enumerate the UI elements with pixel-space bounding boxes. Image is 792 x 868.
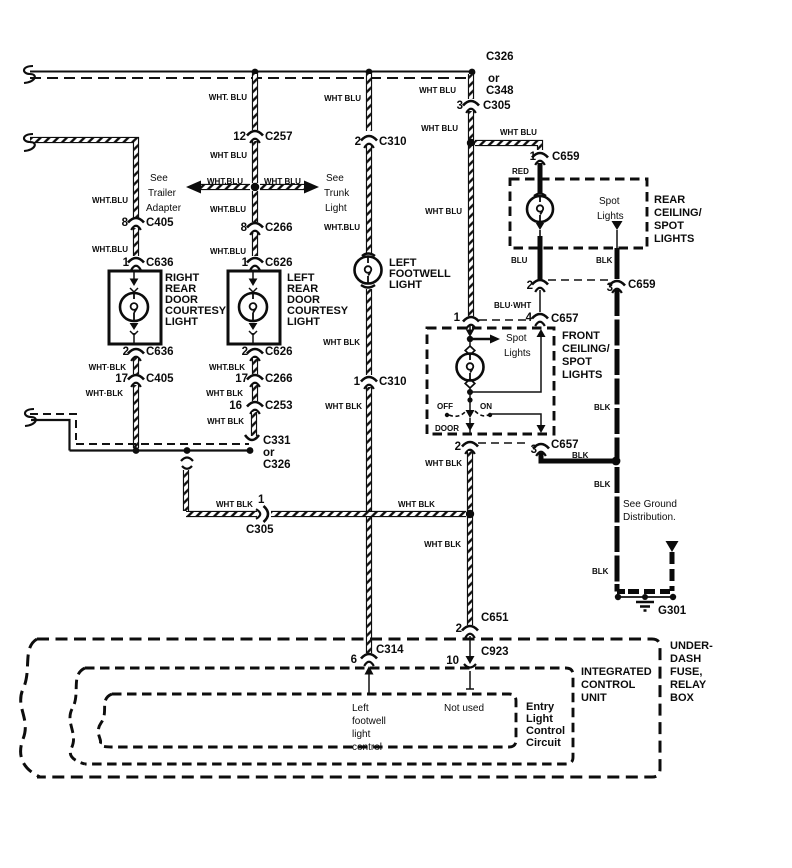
connector C636 (top) [128,258,144,270]
svg-text:LIGHTS: LIGHTS [562,369,602,381]
svg-text:2: 2 [456,623,462,635]
rear ceiling/spot lights box (dashed) [510,179,647,248]
svg-text:C257: C257 [265,131,293,143]
svg-text:Adapter: Adapter [146,203,182,214]
svg-text:DOOR: DOOR [435,424,459,433]
svg-text:WHT.BLU: WHT.BLU [92,245,128,254]
wire WHT-BLU C310 to footwell lamp [366,146,372,254]
connector C657 pin4 [532,314,548,326]
wire WHT-BLU bus down to C305 top [468,74,474,99]
node dot WHT-BLK junction with C305 bus [466,510,474,518]
svg-text:REAR: REAR [654,194,685,206]
wire dashed rail bottom-left bus [30,414,249,444]
svg-text:BLK: BLK [592,567,609,576]
svg-text:SPOT: SPOT [562,356,592,368]
svg-text:2: 2 [527,280,533,292]
svg-text:17: 17 [235,373,248,385]
ground bus end dot left [615,594,621,600]
switch throw dashed arms [449,411,488,416]
svg-text:C626: C626 [265,257,293,269]
connector bridge dashed C659 [548,279,608,281]
svg-text:or: or [263,447,275,459]
svg-text:WHT BLU: WHT BLU [419,86,456,95]
svg-text:C266: C266 [265,222,293,234]
svg-text:Light: Light [325,203,347,214]
svg-text:RELAY: RELAY [670,679,707,691]
svg-text:Spot: Spot [506,333,527,344]
svg-text:C405: C405 [146,373,174,385]
wire WHT-BLK C657 pin2 down to C651 [467,451,473,625]
connector C314 [361,654,377,666]
node dot bottom bus to C305 drop [184,447,191,454]
svg-text:C348: C348 [486,85,514,97]
arrowhead down at pin3 exit [537,425,546,433]
svg-text:BLK: BLK [596,256,613,265]
svg-text:UNIT: UNIT [581,692,607,704]
wire WHT-BLK C405 down to junction [133,385,139,448]
svg-text:WHT BLU: WHT BLU [500,128,537,137]
svg-text:WHT BLK: WHT BLK [216,500,253,509]
wire BLK C657 pin3 to ground bus [541,453,614,461]
connector C659 pin2 [532,280,548,292]
ground distribution arrow [666,541,679,552]
connector C405 (upper) [128,218,144,230]
svg-text:C659: C659 [628,279,656,291]
svg-text:WHT BLU: WHT BLU [210,151,247,160]
wire WHT-BLK C310 down to C314 [366,387,372,653]
connector C626 (top) [247,258,263,270]
svg-text:1: 1 [258,494,265,506]
node dot switch top [467,397,472,402]
ground symbol G301 [636,594,654,611]
switch DOOR arrowhead down [466,418,475,434]
front ceiling/spot lights box (dashed) [427,328,554,434]
svg-text:WHT.BLU: WHT.BLU [207,177,243,186]
svg-text:C657: C657 [551,439,579,451]
svg-text:2: 2 [455,441,461,453]
svg-text:C305: C305 [246,524,274,536]
svg-text:BLK: BLK [594,403,611,412]
wire WHT-BLU junction down to C657 pin1 [468,146,474,316]
wire WHT-BLU horizontal feed to right rear door [30,140,136,218]
top bus wire dashed rail [30,77,468,79]
svg-text:3: 3 [457,100,463,112]
ground bus line G301 [617,596,674,598]
svg-text:C636: C636 [146,257,174,269]
svg-text:1: 1 [242,257,249,269]
node dot C305 wire to rear ceiling feed [467,139,475,147]
under-dash fuse/relay box (dashed outer) [37,639,660,777]
svg-text:See: See [326,173,344,184]
node dot BLK junction [612,457,621,466]
svg-text:DASH: DASH [670,653,701,665]
svg-text:WHT BLK: WHT BLK [323,338,360,347]
break symbol S left end of bottom bus [25,409,36,426]
connector C657 pin2 [462,442,478,454]
svg-text:WHT BLK: WHT BLK [398,500,435,509]
svg-text:6: 6 [351,654,357,666]
svg-text:C923: C923 [481,646,509,658]
entry box wavy left edge [98,694,112,747]
right rear door lamp entry arrow [133,271,135,280]
wire WHT-BLK C626 to C266 [252,358,258,374]
svg-text:Circuit: Circuit [526,737,561,749]
left rear door lamp exit arrow [249,323,258,330]
svg-text:LIGHT: LIGHT [389,279,422,291]
ICU box wavy left edge [70,668,85,764]
node dot front box spot feed [467,336,473,342]
arrowhead up to pin4 [537,329,546,337]
wire ground corner dashed thick [617,584,625,592]
top bus wire solid rail [30,70,473,72]
svg-text:Lights: Lights [504,348,531,359]
svg-text:LIGHT: LIGHT [165,316,198,328]
wire BLU lamp down to C659 pin2 [538,236,543,279]
node dot bus to C257 wire [252,69,259,76]
svg-text:WHT.BLU: WHT.BLU [210,205,246,214]
wire arrow to trunk light (right) [260,184,305,190]
ground bus end dot right [670,594,676,600]
connector C651 [462,626,478,638]
svg-text:WHT.BLK: WHT.BLK [209,363,245,372]
connector C626 (bottom) [247,349,263,361]
wire WHT-BLU C257 to trailer node [252,141,258,183]
svg-text:WHT BLK: WHT BLK [206,389,243,398]
switch common arrowhead [466,410,475,418]
wire BLK C659 pin3 down to ground corner [615,290,620,588]
wire WHT-BLK footwell lamp down to C310 lower [366,289,372,375]
switch ON contact dot [488,413,492,417]
wire pin1 into front box with arrow [466,326,474,337]
svg-text:RED: RED [512,167,529,176]
connector C266 (lower) [247,375,263,387]
connector C657 pin3 [533,444,549,456]
svg-text:WHT BLU: WHT BLU [264,177,301,186]
svg-text:CEILING/: CEILING/ [654,207,702,219]
break symbol S left end of top bus [24,66,35,83]
svg-text:ON: ON [480,402,492,411]
svg-text:FRONT: FRONT [562,330,600,342]
spot lights feed arrow (rear box) [612,221,623,230]
lamp left footwell light [355,254,382,288]
svg-text:Lights: Lights [597,211,624,222]
connector C657 pin1 [463,317,479,329]
svg-text:Distribution.: Distribution. [623,512,676,523]
connector C305 (horizontal) [256,506,268,522]
wire arrow to trailer adapter (left) [200,184,250,190]
wire WHT-BLU C305 to junction [468,111,474,140]
svg-text:12: 12 [233,131,246,143]
svg-text:light: light [352,729,371,740]
svg-text:BLK: BLK [594,480,611,489]
svg-text:CONTROL: CONTROL [581,679,636,691]
svg-text:Not used: Not used [444,703,484,714]
wire RED C659 into rear box lamp [538,163,543,194]
under-dash box wavy left edge [21,639,40,777]
svg-text:WHT·BLK: WHT·BLK [86,389,124,398]
wire WHT-BLU node to C266 [252,191,258,222]
svg-text:1: 1 [123,257,130,269]
svg-text:WHT BLU: WHT BLU [324,94,361,103]
svg-text:WHT.BLU: WHT.BLU [92,196,128,205]
spot lights arrow (front box) [470,335,500,344]
connector C257 [247,131,263,143]
wire lamp bottom to switch [469,392,471,410]
svg-text:Spot: Spot [599,196,620,207]
svg-text:1: 1 [454,312,461,324]
right rear door courtesy light box [109,271,161,344]
svg-text:WHT·BLK: WHT·BLK [89,363,127,372]
connector C659 (top) [532,153,548,165]
svg-text:BOX: BOX [670,692,695,704]
wire C923 stub into entry light circuit [466,671,474,689]
svg-text:8: 8 [241,222,248,234]
lamp left rear door courtesy light [239,293,267,321]
svg-text:8: 8 [122,217,129,229]
svg-text:Light: Light [526,713,553,725]
lamp rear ceiling light [527,194,553,237]
wire WHT-BLU junction right to C659 [475,143,540,150]
svg-text:OFF: OFF [437,402,453,411]
entry light control circuit box (dashed) [112,694,516,747]
connector C331/C326 end chevron [245,435,259,440]
svg-text:See: See [150,173,168,184]
connector C659 pin3 [609,281,625,293]
left rear door lamp entry arrow [252,271,254,280]
svg-text:C314: C314 [376,644,404,656]
integrated control unit box (dashed) [85,668,573,764]
svg-text:C636: C636 [146,346,174,358]
wire WHT-BLU C405 to C636 [133,228,139,256]
svg-text:WHT BLU: WHT BLU [421,124,458,133]
svg-text:control: control [352,742,382,753]
svg-text:C657: C657 [551,313,579,325]
svg-text:17: 17 [115,373,128,385]
connector C405 (lower) [128,375,144,387]
svg-text:C253: C253 [265,400,293,412]
svg-text:WHT BLK: WHT BLK [325,402,362,411]
svg-text:C651: C651 [481,612,509,624]
node dot lamp bottom [467,389,473,395]
svg-text:C331: C331 [263,435,291,447]
wire WHT-BLU C266 to C626 [252,233,258,256]
left rear door courtesy light box [228,271,280,344]
connector bridge dashed C657 lower [478,442,530,444]
node dot bus to C310 wire [366,69,373,76]
svg-text:C310: C310 [379,376,407,388]
svg-text:2: 2 [355,136,361,148]
svg-text:WHT BLU: WHT BLU [425,207,462,216]
connector C310 (lower) [361,377,377,389]
connector C266 (upper) [247,223,263,235]
svg-text:G301: G301 [658,605,687,617]
svg-text:BLK: BLK [572,451,589,460]
svg-text:or: or [488,73,500,85]
svg-text:Trunk: Trunk [324,188,350,199]
node dot bottom bus right end [247,447,254,454]
svg-text:Entry: Entry [526,701,555,713]
svg-text:CEILING/: CEILING/ [562,343,610,355]
svg-text:Left: Left [352,703,369,714]
svg-text:FUSE,: FUSE, [670,666,702,678]
svg-text:C305: C305 [483,100,511,112]
svg-text:Control: Control [526,725,565,737]
connector C305 (vertical) [463,101,479,113]
wire WHT-BLK C253 down to C331 [251,412,257,436]
svg-text:WHT BLK: WHT BLK [425,459,462,468]
svg-text:SPOT: SPOT [654,220,684,232]
lamp right rear door courtesy light [120,293,148,321]
svg-text:C310: C310 [379,136,407,148]
right rear door lamp exit arrow [130,323,139,330]
wire WHT-BLK C305 to front box drop junction [271,511,466,517]
svg-text:BLU: BLU [511,256,528,265]
svg-text:C326: C326 [263,459,291,471]
svg-text:C626: C626 [265,346,293,358]
svg-text:UNDER-: UNDER- [670,640,713,652]
wire spot lights to box edge [616,230,618,248]
svg-text:WHT BLK: WHT BLK [207,417,244,426]
svg-text:C326: C326 [486,51,514,63]
svg-text:C405: C405 [146,217,174,229]
switch OFF contact dot [445,413,449,417]
svg-text:WHT.BLU: WHT.BLU [210,247,246,256]
wire solid rail bottom-left bus [31,420,250,451]
svg-text:C659: C659 [552,151,580,163]
connector chevron top of C305 drop [181,458,193,469]
connector C310 (upper) [361,136,377,148]
connector C923 chevron [464,664,476,668]
svg-text:10: 10 [446,655,459,667]
svg-text:Trailer: Trailer [148,188,177,199]
wire WHT-BLU bus down to C310 [366,74,372,131]
wire into ICU with up arrow (left footwell light control) [365,666,374,693]
svg-text:BLU·WHT: BLU·WHT [494,301,531,310]
svg-text:WHT.BLU: WHT.BLU [324,223,360,232]
lamp front ceiling light [457,341,484,390]
node trailer adapter junction dot [251,183,259,191]
svg-text:footwell: footwell [352,716,386,727]
wire ON contact to pin3 [490,414,541,427]
svg-text:16: 16 [229,400,242,412]
wire WHT-BLK drop down and right to C305 [186,470,257,514]
wire BLU-WHT C659 pin2 to C657 pin4 [539,290,541,312]
node dot bus right end to C305 wire [469,69,476,76]
connector bridge dashed C657 upper [479,319,531,321]
wire WHT-BLK C636 to C405 [133,358,139,374]
break symbol S left end of door feed wire [24,134,35,151]
svg-text:See Ground: See Ground [623,499,677,510]
svg-text:1: 1 [354,376,361,388]
wire WHT-BLU bus down to C257 [252,74,258,130]
wire WHT-BLK C266 to C253 [252,385,258,401]
wire lamp bottom right branch to pin4 [470,336,541,392]
svg-text:LIGHTS: LIGHTS [654,233,694,245]
svg-text:WHT. BLU: WHT. BLU [209,93,247,102]
svg-text:C266: C266 [265,373,293,385]
svg-text:INTEGRATED: INTEGRATED [581,666,652,678]
svg-text:WHT BLK: WHT BLK [424,540,461,549]
connector C636 (bottom) [128,349,144,361]
wire C651 into ICU with down arrow [466,636,475,664]
wire BLK spot lights down to C659 pin3 [615,248,620,279]
connector C253 [247,402,263,414]
svg-text:LIGHT: LIGHT [287,316,320,328]
node dot right door wire to bottom bus [133,447,140,454]
wire ground reference dashed thick [670,552,675,591]
